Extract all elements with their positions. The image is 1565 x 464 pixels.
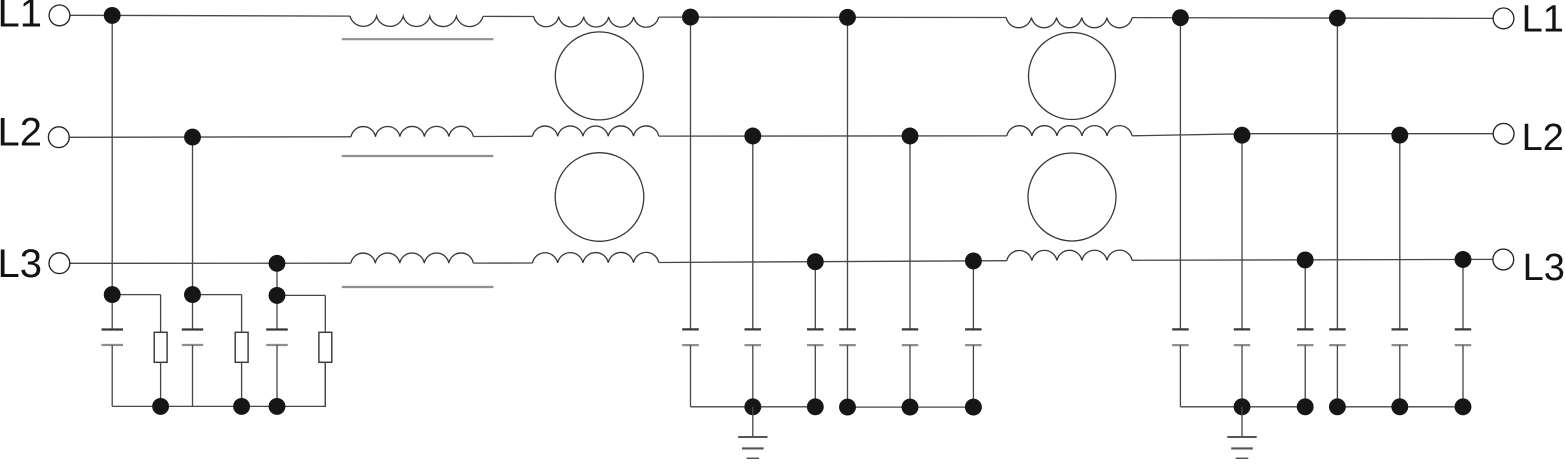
- svg-text:L1: L1: [1522, 0, 1564, 40]
- svg-text:L2: L2: [0, 110, 42, 154]
- svg-text:L3: L3: [0, 242, 42, 286]
- svg-text:L1: L1: [0, 0, 42, 35]
- svg-text:L2: L2: [1522, 117, 1564, 159]
- svg-text:L3: L3: [1523, 247, 1565, 289]
